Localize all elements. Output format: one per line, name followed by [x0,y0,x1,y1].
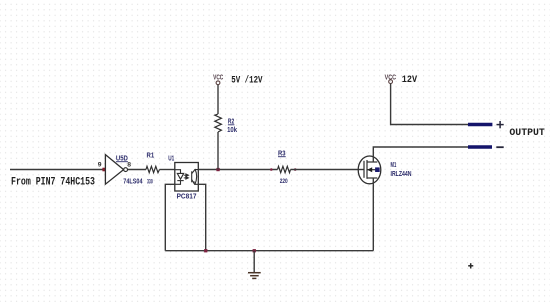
junction at inverter input [102,168,106,172]
svg-text:M1: M1 [391,160,397,169]
wire: source down [372,178,374,251]
wire: R1 to U1 [160,169,175,171]
wire: VCC 12V down and right [391,84,468,125]
M1 internals [364,160,377,179]
M1 source junction square [375,167,380,172]
designator R2 [228,116,235,125]
svg-text:9: 9 [98,162,102,169]
wire: inverter output to R1 [128,169,146,171]
gate lead inside [358,169,363,171]
svg-text:R2: R2 [228,116,234,125]
power VCC 5V/12V [213,75,223,85]
wire: U1 cathode loop left/down [165,184,175,250]
plus sign [497,121,504,128]
junction gate node / R2 [216,168,219,171]
R3 pin dots [270,168,273,171]
junction ground/rail [253,249,256,252]
resistor R3 [278,166,291,172]
wire: U1 collector to R3 [198,169,277,171]
wire: U1 emitter down [198,184,205,250]
optocoupler U1 box [175,163,199,192]
ground [248,251,261,279]
svg-text:R1: R1 [147,150,155,159]
cursor cross [468,263,473,268]
svg-text:PC817: PC817 [177,193,197,200]
resistor R1 [146,166,160,172]
junction emitter/rail [204,249,207,252]
svg-text:10k: 10k [227,127,237,134]
svg-text:330: 330 [147,178,153,185]
M1 body arrow [367,167,372,172]
wire: input net from PIN7 [10,169,104,171]
wire: R2 to gate node [217,132,219,170]
svg-text:8: 8 [127,162,131,169]
wire: bottom ground rail [165,250,373,252]
port bar plus [468,123,492,127]
designator R3 [278,148,286,157]
svg-text:IRLZ44N: IRLZ44N [391,171,412,178]
light arrows [184,174,189,179]
svg-text:U1: U1 [168,154,174,163]
wire: R3 to gate [291,169,364,171]
svg-text:74LS04: 74LS04 [123,179,142,186]
svg-text:From PIN7 74HC153: From PIN7 74HC153 [11,176,95,188]
resistor R2 (vertical) [215,114,222,132]
svg-text:12V: 12V [402,75,417,86]
op-amp U5D inverter triangle [105,155,127,185]
transistor M1 body [358,156,381,184]
LED inside U1 [175,170,184,185]
emitter arrowhead [193,181,195,184]
svg-text:OUTPUT: OUTPUT [509,128,544,139]
wire: VCC to R2 [217,85,219,114]
svg-text:5V /12V: 5V /12V [231,74,262,86]
svg-text:R3: R3 [278,148,286,157]
wire: drain up and right [373,147,468,162]
svg-text:220: 220 [280,178,288,185]
port bar minus [468,145,492,149]
power VCC 12V [385,74,397,83]
designator U5D [116,153,128,162]
phototransistor inside U1 [192,169,199,185]
minus sign [496,146,503,148]
